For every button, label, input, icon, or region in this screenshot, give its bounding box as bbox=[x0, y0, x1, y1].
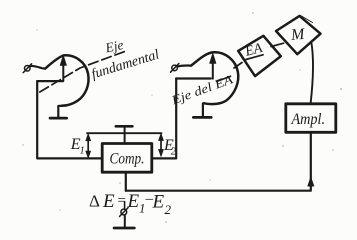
svg-text:=: = bbox=[118, 193, 126, 209]
svg-text:1: 1 bbox=[80, 146, 85, 157]
svg-text:2: 2 bbox=[171, 147, 177, 158]
svg-text:E: E bbox=[127, 191, 140, 212]
svg-text:2: 2 bbox=[165, 202, 172, 217]
svg-text:E: E bbox=[102, 191, 115, 212]
svg-text:Ampl.: Ampl. bbox=[291, 111, 325, 128]
svg-text:Δ: Δ bbox=[89, 192, 100, 211]
svg-text:E: E bbox=[152, 192, 165, 213]
svg-text:Comp.: Comp. bbox=[110, 151, 145, 168]
